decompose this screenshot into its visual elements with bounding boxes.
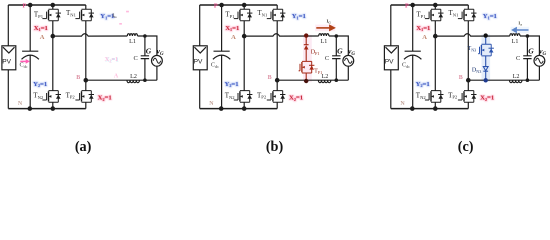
junction dot branch bottom fig(b): [304, 79, 308, 83]
junction dot Cdc/bottom rail fig(b): [219, 106, 224, 111]
svg-text:TF1: TF1: [314, 69, 322, 75]
capacitor C branch bottom wire fig(a): [144, 59, 146, 81]
junction dot TP1 drain on top rail fig(a): [51, 3, 56, 8]
junction dot Cdc/bottom rail fig(a): [28, 106, 33, 111]
capacitor C branch top wire fig(b): [335, 36, 337, 56]
svg-text:X2=1: X2=1: [98, 95, 112, 102]
grid current arrow (red) fig(b): [315, 25, 335, 32]
capacitor C branch top wire fig(c): [526, 36, 528, 56]
junction dot C bottom fig(a): [143, 78, 147, 82]
inductor L1 fig(c): [510, 34, 520, 36]
transistor T_P1 fig(b): [234, 9, 253, 21]
svg-text:G: G: [528, 47, 534, 56]
branch wire middle fig(c): [485, 56, 487, 67]
transistor T_P2 fig(a): [75, 91, 94, 103]
svg-text:PV: PV: [194, 59, 203, 66]
wire fig(b): TN1 source down to node B: [276, 21, 278, 80]
svg-text:L2: L2: [130, 74, 137, 80]
wire fig(a): TP1 drain lead: [52, 5, 54, 9]
wire fig(c): TN2 source to bottom rail: [434, 102, 436, 108]
junction dot branch top fig(b): [304, 33, 308, 37]
svg-text:PV: PV: [2, 59, 11, 66]
wire fig(c): TN1 drain lead fig(c): [467, 5, 469, 9]
capacitor C fig(c): [523, 56, 531, 59]
wire fig(c): L1 to grid corner: [520, 36, 539, 55]
grid current arrow (blue, reversed) fig(c): [511, 27, 530, 33]
svg-text:X1=1: X1=1: [416, 25, 430, 32]
junction dot branch top fig(c): [484, 33, 488, 37]
svg-text:P: P: [214, 2, 218, 9]
transistor T_N2 fig(b): [234, 91, 253, 103]
capacitor Cdc fig(a): [22, 51, 39, 59]
svg-text:X1=1: X1=1: [225, 25, 239, 32]
node A junction dot fig(c): [433, 34, 438, 39]
junction dot TN2 source on bottom rail fig(a): [51, 106, 56, 111]
wire fig(a): bottom rail node N: [8, 108, 86, 110]
inductor L2 fig(b): [318, 80, 330, 83]
wire fig(a): left rail from PV - to bottom rail N: [7, 70, 9, 109]
pink speck marks fig(a): [119, 12, 129, 24]
wire fig(a): top rail node P: [8, 4, 86, 6]
capacitor Cdc branch wire (bottom) fig(c): [412, 55, 414, 109]
junction dot C bottom fig(b): [335, 78, 339, 82]
wire fig(c): TP1 source to node A: [434, 21, 436, 36]
wire fig(b): top rail node P: [200, 4, 278, 6]
wire fig(b): node B down to TP2 drain: [276, 80, 278, 90]
junction dot C top fig(b): [335, 34, 339, 38]
svg-text:(b): (b): [266, 139, 284, 155]
junction dot Cdc/top rail fig(c): [410, 3, 415, 8]
wire fig(c): node A to filter with crossover hop: [435, 34, 510, 36]
transistor T_N1 fig(a): [75, 9, 94, 21]
junction dot TN2 source on bottom rail fig(b): [242, 106, 247, 111]
wire fig(a): node A to filter with crossover hop: [53, 34, 128, 36]
wire fig(a): TN2 source to bottom rail: [52, 102, 54, 108]
wire fig(b): TN2 source to bottom rail: [243, 102, 245, 108]
svg-text:N: N: [400, 101, 405, 107]
junction dot TP1 drain on top rail fig(c): [433, 3, 438, 8]
svg-text:N: N: [18, 101, 23, 107]
wire fig(c): TP2 source to bottom rail: [467, 102, 469, 108]
transistor T_N1 fig(b): [267, 9, 286, 21]
wire fig(b): grid bottom lead: [347, 66, 349, 80]
capacitor Cdc branch wire (bottom) fig(a): [29, 55, 31, 109]
diode D_N3 fig(c): [483, 67, 488, 72]
transistor T_F1 fig(b): [299, 61, 315, 73]
junction dot Cdc/bottom rail fig(c): [410, 106, 415, 111]
svg-text:L1: L1: [321, 39, 328, 45]
junction dot branch bottom fig(c): [484, 78, 488, 82]
svg-text:(c): (c): [458, 139, 474, 155]
svg-text:C: C: [134, 55, 138, 62]
inductor L2 fig(a): [127, 80, 139, 83]
transistor T_P2 fig(b): [267, 91, 286, 103]
junction dot Cdc/top rail fig(b): [219, 3, 224, 8]
wire fig(b): bottom rail node N: [200, 108, 278, 110]
capacitor Cdc branch wire (top) fig(c): [412, 5, 414, 51]
junction dot TN2 source on bottom rail fig(c): [433, 106, 438, 111]
svg-text:X1=1: X1=1: [34, 25, 48, 32]
wire fig(a): L1 to grid corner: [138, 36, 157, 55]
node B junction dot fig(c): [466, 78, 471, 83]
svg-text:G: G: [337, 47, 343, 56]
wire fig(c): node B down to TP2 drain: [467, 80, 469, 90]
wire fig(b): left rail from PV - to bottom rail N: [199, 70, 201, 109]
wire fig(a): grid bottom lead: [156, 66, 158, 80]
svg-text:C: C: [325, 55, 329, 62]
wire fig(a): TP1 source to node A: [52, 21, 54, 36]
grid source G circle fig(c): [534, 55, 545, 66]
transistor T_N2 fig(a): [42, 91, 61, 103]
node A junction dot fig(a): [51, 34, 56, 39]
svg-text:B: B: [459, 75, 463, 81]
diode D_F1 fig(b): [304, 45, 309, 50]
wire fig(a): left rail from P to PV +: [7, 5, 9, 46]
svg-text:IG: IG: [112, 14, 117, 19]
wire fig(b): node A down to TN2 drain: [243, 36, 245, 91]
wire fig(a): TN1 source down to node B: [85, 21, 87, 80]
svg-text:P: P: [405, 2, 409, 9]
junction dot C top fig(a): [143, 34, 147, 38]
svg-text:B: B: [268, 75, 272, 81]
svg-text:X2=1: X2=1: [289, 95, 303, 102]
svg-text:TN3: TN3: [468, 46, 477, 52]
junction dot C top fig(c): [526, 34, 530, 38]
current arrow (pink) at Cdc fig(a): [20, 59, 30, 64]
wire fig(b): TP1 drain lead: [243, 5, 245, 9]
freewheeling branch wire middle fig(b): [305, 50, 307, 62]
node B junction dot fig(a): [84, 78, 89, 83]
wire fig(a): node B down to TP2 drain: [85, 80, 87, 90]
svg-text:L1: L1: [129, 39, 136, 45]
branch wire bottom fig(c): [485, 71, 487, 80]
grid source G circle fig(a): [152, 55, 163, 66]
transistor T_P1 fig(c): [425, 9, 444, 21]
wire fig(b): node A to filter with crossover hop: [244, 34, 319, 36]
wire fig(c): left rail from P to PV +: [390, 5, 392, 46]
capacitor Cdc branch wire (bottom) fig(b): [221, 55, 223, 109]
wire fig(b): node B to grid (bottom run): [277, 79, 348, 81]
wire fig(b): L1 to grid corner: [329, 36, 348, 55]
freewheeling branch wire bottom fig(b): [305, 73, 307, 81]
capacitor Cdc branch wire (top) fig(a): [29, 5, 31, 51]
transistor T_P2 fig(c): [458, 91, 477, 103]
svg-text:A: A: [40, 34, 45, 41]
svg-text:A: A: [422, 34, 427, 41]
svg-text:X2=1: X2=1: [480, 95, 494, 102]
wire fig(c): node B to grid (bottom run): [468, 79, 539, 81]
wire fig(c): top rail node P: [391, 4, 469, 6]
svg-text:G: G: [146, 47, 152, 56]
inductor L1 fig(b): [319, 34, 329, 36]
grid current arrow shaft+head fig(b): [316, 24, 336, 31]
freewheeling branch wire top fig(b): [305, 36, 307, 45]
capacitor C branch bottom wire fig(b): [335, 59, 337, 81]
node A junction dot fig(b): [242, 34, 247, 39]
wire fig(b): left rail from P to PV +: [199, 5, 201, 46]
wire fig(b): TN1 drain lead fig(b): [276, 5, 278, 9]
capacitor C branch bottom wire fig(c): [526, 59, 528, 81]
capacitor C fig(a): [141, 56, 149, 59]
svg-text:L2: L2: [513, 74, 520, 80]
svg-text:N: N: [209, 101, 214, 107]
capacitor Cdc branch wire (top) fig(b): [221, 5, 223, 51]
junction dot TP1 drain on top rail fig(b): [242, 3, 247, 8]
inductor L2 fig(c): [510, 80, 522, 83]
transistor T_N1 fig(c): [458, 9, 477, 21]
grid current arrow shaft+head fig(c): [511, 27, 528, 34]
ghost label X2=1 fig(a): [105, 56, 119, 64]
svg-text:(a): (a): [75, 139, 92, 155]
svg-text:C: C: [516, 55, 520, 62]
svg-text:Y1=1: Y1=1: [483, 13, 497, 20]
svg-text:Y2=1: Y2=1: [33, 81, 47, 88]
wire fig(c): TP1 drain lead: [434, 5, 436, 9]
inductor L1 fig(a): [127, 34, 137, 36]
transistor T_N2 fig(c): [425, 91, 444, 103]
svg-text:PV: PV: [385, 59, 394, 66]
transistor T_P1 fig(a): [42, 9, 61, 21]
PV panel source fig(b): [193, 46, 207, 70]
svg-text:A: A: [114, 74, 119, 80]
junction dot Cdc/top rail fig(a): [28, 3, 33, 8]
wire fig(c): grid bottom lead: [538, 66, 540, 80]
svg-text:Y2=1: Y2=1: [416, 81, 430, 88]
capacitor Cdc fig(c): [404, 51, 421, 59]
wire fig(a): node A down to TN2 drain: [52, 36, 54, 91]
svg-text:L1: L1: [512, 39, 519, 45]
capacitor Cdc fig(b): [213, 51, 230, 59]
wire fig(a): TP2 source to bottom rail: [85, 102, 87, 108]
wire fig(c): bottom rail node N: [391, 108, 469, 110]
svg-text:DF1: DF1: [311, 50, 320, 56]
svg-text:B: B: [76, 75, 80, 81]
wire fig(a): TN1 drain lead fig(a): [85, 5, 87, 9]
PV panel source fig(c): [384, 46, 398, 70]
PV panel source fig(a): [2, 46, 16, 70]
node B junction dot fig(b): [275, 78, 280, 83]
wire fig(a): node B to grid (bottom run): [86, 79, 157, 81]
svg-text:L2: L2: [322, 74, 329, 80]
grid source G circle fig(b): [343, 55, 354, 66]
junction dot C bottom fig(c): [526, 78, 530, 82]
capacitor C branch top wire fig(a): [144, 36, 146, 56]
svg-text:X2=1: X2=1: [105, 56, 119, 63]
wire fig(c): node A down to TN2 drain: [434, 36, 436, 91]
svg-text:Y2=1: Y2=1: [225, 81, 239, 88]
wire fig(b): TP1 source to node A: [243, 21, 245, 36]
svg-text:P: P: [23, 2, 27, 9]
wire fig(c): left rail from PV - to bottom rail N: [390, 70, 392, 109]
capacitor C fig(b): [332, 56, 340, 59]
svg-text:Y1=1: Y1=1: [292, 13, 306, 20]
svg-text:DN3: DN3: [472, 67, 481, 73]
svg-text:A: A: [231, 34, 236, 41]
wire fig(c): TN1 source down to node B: [467, 21, 469, 80]
transistor T_N3 fig(c): [478, 44, 494, 56]
wire fig(b): TP2 source to bottom rail: [276, 102, 278, 108]
branch wire top fig(c): [485, 36, 487, 45]
